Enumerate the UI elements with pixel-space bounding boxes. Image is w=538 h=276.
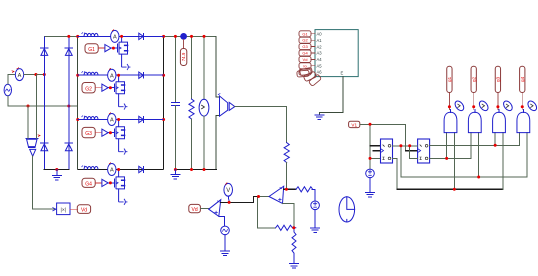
opamp2 minus lead down [283,204,295,228]
bottom rail of input loop [8,105,78,107]
diode D5 [139,33,144,40]
svg-text:A5: A5 [317,64,323,69]
bus corner down right [215,36,217,97]
ground VDC2 [366,192,375,196]
resistor RL [189,99,194,119]
ff1 Q drop to ff2 set [410,146,418,159]
buffer B1 [105,45,111,52]
source VS1 (AC input source) [4,84,11,96]
svg-text:G4: G4 [85,181,92,187]
ground out [174,170,176,174]
MCU pin names [317,32,344,76]
driver wires row4 [95,182,102,184]
svg-text:|×|: |×| [61,207,67,213]
gate label G1 [85,44,98,53]
row junction dots [109,35,123,185]
mosfet Q4 [115,170,128,205]
probe Vp1 [224,183,233,196]
source VDC2 [366,169,375,178]
voltage sensor VSEN2 [218,94,235,117]
cap leg wire [174,36,176,102]
resistor leg [191,36,193,99]
opamp2 output wire [284,188,296,190]
gate wire row4 [108,182,115,184]
opamp node dots [228,188,296,230]
AND gate U10 [493,109,506,132]
sensor output wire to abs block [33,156,56,209]
AND gate U11 [517,109,530,132]
svg-text:A4: A4 [317,57,323,62]
wire source bottom to bottom rail [7,96,9,106]
source VSIN2 [221,226,230,235]
inductor L4 [82,166,99,170]
feedback resistor R3 [276,225,296,230]
MCU input label boxes [299,31,311,75]
MCU ground wire [319,77,343,114]
buffer B4 [102,179,108,186]
wire source to ground [224,235,226,251]
svg-text:E: E [341,71,344,76]
vertical label g3 [495,66,500,92]
out node dots [174,35,206,171]
ff2 clock stub [406,150,418,152]
svg-text:V: V [226,188,230,194]
driver wires row2 [95,87,102,89]
diode D7 [139,116,144,123]
gate label G2 [82,83,95,93]
vertical label g1 [447,66,452,92]
sensor input pin B [35,75,37,139]
ff2 Q bus C [430,144,520,146]
svg-text:Vd: Vd [303,57,308,62]
driver wires row1 [98,47,105,49]
gate output dots [448,105,524,108]
bus B [397,188,503,190]
bus A [401,176,527,178]
probe P4 [526,99,538,112]
top bus [44,35,216,37]
op-amp U4 [269,186,284,203]
ammeter A3 [108,68,116,81]
gate2 left leg [470,133,472,159]
ammeter A4 [108,113,116,126]
ff1 feed vertical [369,124,371,169]
svg-text:G2: G2 [85,86,92,92]
AND gate U8 [444,109,457,132]
svg-text:G4: G4 [302,51,308,56]
current sensor ISEN [181,34,187,40]
op-amp U3 [209,200,221,217]
gate1 right leg [453,133,455,190]
sensor input pin A [27,106,29,139]
gate4 right leg [526,133,528,177]
svg-text:G1: G1 [302,31,308,36]
wire abs to label [70,208,77,210]
svg-text:A2: A2 [317,44,323,49]
wire source top to ammeter [8,75,15,85]
svg-text:A1: A1 [317,38,323,43]
diode leg wire x=44.3 [43,36,45,169]
gate3 left leg [494,133,496,146]
MCU block U5 [315,30,358,77]
ff2 clock drop [405,124,407,150]
ff1 D stub [370,145,381,147]
source VDC1 [311,201,320,210]
gate2 right leg [478,133,480,177]
ff1 Q drop to bus A [400,146,402,177]
voltmeter leg [203,36,205,99]
MCU pin stubs [311,34,315,66]
gate wire row2 [108,87,115,89]
output resistor R5 [296,187,312,192]
svg-text:Vd: Vd [81,208,87,214]
node dot rectifier bottom [55,168,58,171]
wire to ground [314,210,316,228]
inductor L1 [82,32,99,36]
right bus [163,36,165,169]
ff1 clock stub [373,150,381,152]
flip-flop U7 [418,139,430,163]
input node vertical [257,197,275,228]
gate output stubs [449,93,522,110]
opamp1 output wire [221,197,259,203]
left bus [77,36,79,169]
wire label to opamp1 [200,208,208,210]
probe P2 [478,99,490,112]
ff1 Q wire to ff2 D [393,145,418,147]
label V1 [349,121,360,127]
probe P3 [502,99,514,112]
svg-text:G1: G1 [88,47,95,53]
ground rectifier [56,170,58,175]
row2 wire [78,74,164,76]
svg-text:A6: A6 [317,70,323,75]
diode D1 top [41,48,48,56]
diode D6 [139,72,144,79]
capacitor C1 [171,102,179,105]
vertical label g4 [520,66,525,92]
diode leg wire x=68.8 [68,36,70,169]
node dots input loop [27,73,71,108]
arrowhead into abs block [53,208,56,211]
resistor R2 [284,143,289,163]
wire VDC2 ground [369,178,371,192]
svg-text:G2: G2 [302,38,308,43]
flip-flop U6 [381,139,393,163]
wire R5 to source [312,189,315,201]
AND gate U9 [468,109,481,132]
label Vin [77,205,90,214]
vertical label g2 [471,66,476,92]
svg-text:A3: A3 [317,51,323,56]
row1 wire [78,35,164,37]
buffer B2 [102,84,108,91]
inductor L3 [82,116,99,120]
mosfet Q1 [118,35,131,70]
wire label to ff area [360,123,406,125]
ff2 Qb bus D [430,157,471,159]
gate label G4 [82,178,95,187]
buffer B3 [102,129,108,136]
diode D2 top [65,48,72,56]
ground MCU [315,115,324,119]
driver wires row3 [95,132,102,134]
gate4 left leg [519,133,521,146]
sensor legs [216,97,219,170]
gate3 right leg [502,133,504,190]
diode D8 [139,166,144,173]
gate label G3 [82,127,95,137]
bus node dots [67,35,165,121]
row3 wire [78,119,164,121]
svg-text:g3: g3 [496,76,501,82]
svg-text:G3: G3 [302,44,308,49]
label Io (rotated) [180,49,186,66]
svg-text:74.9: 74.9 [181,52,186,61]
svg-text:g1: g1 [447,76,452,82]
ammeter A5 [108,163,116,176]
resistor R4 to ground [292,228,296,263]
gate wire row1 [111,47,118,49]
bottom bus out [175,169,216,171]
label Vd2 [189,204,201,212]
gate1 left leg [446,133,448,159]
diode D3 bottom [41,143,48,151]
svg-text:G3: G3 [85,131,92,137]
logic node dots [369,123,497,191]
ammeter A2 [111,29,119,42]
row4 bottom wire [78,169,164,171]
svg-text:Vd: Vd [192,207,198,213]
ff1 set stub [370,157,381,159]
opamp1 minus lead to source [219,216,225,226]
svg-text:g2: g2 [471,76,476,82]
ground opamp1 [221,251,230,255]
MCU fan labels [297,67,322,86]
voltmeter V [199,99,209,116]
rectifier bottom bus [44,169,69,171]
sensed wire right [235,107,287,143]
abs block U2 [57,203,70,215]
ammeter A1 [15,68,23,81]
svg-text:g4: g4 [520,76,525,82]
wire ammeter to node at diode leg D1 [24,74,44,76]
mosfet Q2 [115,75,128,110]
clock scope CLK [339,197,355,222]
arrow mark sensor [38,135,40,137]
probe P1 [453,99,465,112]
ff1 Qb drop to bus B [393,158,397,189]
arrow mark on ammeter [12,71,14,73]
inductor L2 [82,71,99,75]
svg-text:V1: V1 [351,122,357,127]
svg-text:A0: A0 [317,32,323,37]
wire input node to opamp2 [259,196,270,198]
mosfet Q3 [115,120,128,155]
voltage sensor VSEN1 (trapezoid) [26,139,38,157]
diode D4 bottom [65,143,72,151]
ground VDC1 [311,228,320,232]
gate wire row3 [108,132,115,134]
ground R4 [290,264,299,268]
